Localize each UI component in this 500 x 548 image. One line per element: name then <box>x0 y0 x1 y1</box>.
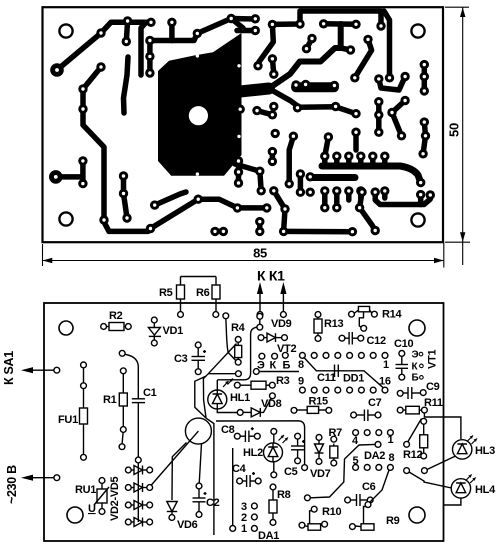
solder pad <box>146 18 155 27</box>
solder pad <box>252 106 261 115</box>
wire from transformer area to DA2 column <box>216 421 305 465</box>
wire junction to HL4 <box>409 472 452 488</box>
copper trace <box>311 174 355 181</box>
solder pad <box>380 152 389 161</box>
solder pad <box>119 171 128 180</box>
solder pad <box>426 190 435 199</box>
copper trace <box>155 192 186 205</box>
solder pad <box>320 203 329 212</box>
solder pad <box>357 187 366 196</box>
copper trace <box>147 41 153 74</box>
svg-text:1: 1 <box>388 434 394 446</box>
IC DD1 outline <box>304 357 384 388</box>
svg-text:VD1: VD1 <box>163 325 184 337</box>
svg-text:К: К <box>270 360 277 372</box>
svg-text:HL4: HL4 <box>475 484 496 496</box>
solder pad <box>257 186 266 195</box>
solder pad <box>167 18 176 27</box>
solder pad <box>236 105 245 114</box>
copper trace <box>269 24 341 89</box>
solder pad <box>387 108 396 117</box>
svg-text:R12: R12 <box>403 449 422 461</box>
svg-text:R4: R4 <box>231 322 246 334</box>
IC DA2 pins <box>353 430 394 471</box>
copper trace <box>236 161 242 183</box>
svg-text:HL2: HL2 <box>243 447 263 459</box>
solder pad <box>96 28 105 37</box>
wire arrow to K1 (right) <box>282 294 284 312</box>
solder pad <box>306 188 315 197</box>
solder pad <box>330 81 339 90</box>
svg-text:C10: C10 <box>394 338 413 350</box>
solder pad <box>374 74 383 83</box>
PCB board outline <box>43 7 444 242</box>
wires transformer to VD6 and C2 <box>172 443 202 501</box>
solder pad <box>268 20 277 29</box>
solder pad <box>306 172 315 181</box>
wire HL3 to junction <box>427 456 456 470</box>
svg-text:R6: R6 <box>196 287 210 299</box>
copper trace <box>307 39 313 49</box>
wire outer loop down to bottom area <box>195 376 214 535</box>
IC DD1 pin rows <box>300 353 388 394</box>
wire HL4 bottom <box>444 498 461 505</box>
mounting hole top-right <box>409 320 425 336</box>
solder pad <box>268 147 277 156</box>
svg-text:Б: Б <box>283 360 291 372</box>
solder pad <box>78 156 87 165</box>
copper trace <box>269 89 356 114</box>
copper trace <box>355 39 372 77</box>
solder pad <box>400 72 409 81</box>
solder pad <box>356 186 365 195</box>
solder pad <box>420 86 429 95</box>
svg-text:VD9: VD9 <box>271 318 292 330</box>
copper trace <box>215 229 223 235</box>
solder pad <box>385 73 394 82</box>
solder pad <box>219 227 228 236</box>
svg-text:VT1: VT1 <box>427 350 439 369</box>
transformer T1 circle <box>151 418 212 486</box>
solder pad <box>251 26 260 35</box>
copper trace <box>341 48 351 50</box>
solder pad <box>332 203 341 212</box>
wire stub to node below R4 <box>208 373 235 375</box>
solder pad <box>280 204 289 213</box>
solder pad <box>420 72 429 81</box>
svg-text:HL1: HL1 <box>230 392 250 404</box>
solder pad <box>194 195 203 204</box>
copper trace <box>124 57 129 113</box>
svg-text:VD8: VD8 <box>261 398 282 410</box>
solder pad <box>380 186 389 195</box>
copper trace <box>370 156 376 164</box>
svg-text:R9: R9 <box>386 515 400 527</box>
svg-text:50: 50 <box>447 123 462 137</box>
solder pad <box>344 152 353 161</box>
VT1 pins <box>419 352 423 356</box>
copper trace <box>169 22 175 40</box>
svg-text:R3: R3 <box>276 375 290 387</box>
svg-text:~230 В: ~230 В <box>5 465 19 504</box>
svg-text:9: 9 <box>298 376 304 388</box>
svg-text:VD6: VD6 <box>177 519 198 531</box>
solder pad <box>376 21 385 30</box>
svg-text:R1: R1 <box>103 394 117 406</box>
svg-text:C8: C8 <box>221 424 235 436</box>
solder pad <box>145 36 154 45</box>
copper trace <box>231 16 254 22</box>
solder pad <box>99 215 108 224</box>
copper trace <box>325 137 329 156</box>
copper trace <box>235 164 261 191</box>
svg-text:C7: C7 <box>368 397 382 409</box>
wire R11 to HL3 <box>408 413 461 442</box>
copper trace <box>322 156 328 164</box>
copper trace <box>272 59 273 74</box>
solder pad <box>78 179 87 188</box>
solder pad <box>293 103 302 112</box>
solder pad <box>269 186 278 195</box>
wire from top pad to HL1 anode <box>217 319 259 380</box>
component side board outline <box>44 303 444 541</box>
wire to DA1 pin 1 <box>232 448 234 526</box>
wire HL1 bottom to VD8 <box>217 411 237 413</box>
copper trace <box>298 174 304 192</box>
svg-text:VD7: VD7 <box>310 468 331 480</box>
copper trace <box>56 174 83 180</box>
copper trace <box>353 132 359 150</box>
solder pad <box>319 19 328 28</box>
solder pad <box>285 179 294 188</box>
solder pad <box>307 34 316 43</box>
svg-text:R8: R8 <box>277 489 291 501</box>
svg-text:RU1: RU1 <box>75 484 96 496</box>
solder pad <box>418 149 427 158</box>
svg-text:DD1: DD1 <box>343 373 364 385</box>
solder pad <box>320 152 329 161</box>
svg-text:8: 8 <box>389 452 395 464</box>
solder pad <box>269 70 278 79</box>
dimension 50 (right) <box>445 7 470 265</box>
svg-text:C4: C4 <box>232 463 247 475</box>
solder pad <box>234 156 243 165</box>
copper trace <box>240 89 269 92</box>
svg-text:R5: R5 <box>159 287 173 299</box>
solder pad <box>374 128 383 137</box>
mounting hole top-left <box>59 321 73 335</box>
solder pad <box>332 186 341 195</box>
copper trace <box>274 191 285 232</box>
solder pad <box>210 227 219 236</box>
wire joining R5 R6 tops <box>181 276 217 278</box>
wire to SA1 with arrow <box>30 369 54 371</box>
copper trace <box>322 191 328 208</box>
solder pad <box>78 84 87 93</box>
solder pad <box>271 129 280 138</box>
copper trace <box>237 28 255 34</box>
solder pad <box>96 62 105 71</box>
svg-text:C1: C1 <box>143 387 157 399</box>
svg-text:К SA1: К SA1 <box>2 351 16 385</box>
wire arrow to K1 (left) <box>259 294 261 312</box>
solder pad <box>279 227 288 236</box>
svg-text:1: 1 <box>241 523 247 535</box>
solder pad <box>420 117 429 126</box>
copper trace <box>126 21 127 42</box>
mounting hole bottom-right <box>411 213 424 226</box>
solder pad <box>255 227 264 236</box>
copper trace <box>379 77 405 91</box>
svg-text:VD2-VD5: VD2-VD5 <box>109 476 121 521</box>
copper trace <box>375 192 430 204</box>
solder pad <box>301 80 310 89</box>
copper trace <box>392 101 405 136</box>
solder pad <box>291 80 300 89</box>
copper trace <box>80 161 86 184</box>
solder pad <box>351 20 360 29</box>
wire DA2 pin 8 to R9 <box>370 470 389 502</box>
solder pad <box>295 19 304 28</box>
copper trace <box>384 11 390 78</box>
copper trace <box>422 65 428 91</box>
copper trace <box>324 21 356 27</box>
solder pad <box>146 224 155 233</box>
solder pad <box>331 102 340 111</box>
solder pad <box>268 157 277 166</box>
solder pad <box>49 170 63 184</box>
wire to mains with arrow <box>30 477 54 479</box>
mounting hole bottom-right <box>409 507 425 523</box>
copper trace <box>360 192 376 230</box>
copper trace <box>270 152 276 162</box>
svg-text:R2: R2 <box>109 310 123 322</box>
copper trace <box>346 156 352 164</box>
copper trace <box>358 191 364 198</box>
copper ground plane polygon <box>158 33 242 176</box>
svg-text:5: 5 <box>353 455 359 467</box>
solder pad <box>346 45 355 54</box>
solder pad <box>123 16 132 25</box>
solder pad <box>374 110 383 119</box>
copper trace <box>124 176 128 218</box>
solder pad <box>262 203 271 212</box>
solder pad <box>344 186 353 195</box>
copper trace <box>257 111 272 115</box>
solder pad <box>368 152 377 161</box>
copper trace <box>358 156 364 164</box>
solder pad <box>251 14 260 23</box>
VT2 pins <box>259 353 265 359</box>
copper trace <box>83 67 267 231</box>
solder pad <box>150 200 159 209</box>
copper trace <box>382 156 388 164</box>
copper trace <box>258 24 273 65</box>
copper trace <box>376 102 382 133</box>
svg-text:C11: C11 <box>317 372 336 384</box>
svg-text:C9: C9 <box>426 381 440 393</box>
svg-text:C5: C5 <box>284 466 298 478</box>
solder pad <box>255 167 264 176</box>
svg-text:HL3: HL3 <box>475 445 495 457</box>
solder pad <box>356 152 365 161</box>
copper trace <box>284 229 353 235</box>
copper trace <box>289 136 293 184</box>
copper trace <box>382 191 388 198</box>
copper trace <box>334 156 340 164</box>
solder pad <box>253 61 262 70</box>
solder pad <box>233 203 242 212</box>
svg-text:FU1: FU1 <box>58 414 78 426</box>
copper trace <box>346 191 352 200</box>
solder pad <box>420 60 429 69</box>
mounting hole bottom-left <box>59 212 72 225</box>
copper trace <box>257 222 263 232</box>
solder pad <box>145 52 154 61</box>
solder pad <box>234 178 243 187</box>
mounting hole top-left <box>59 24 72 37</box>
svg-text:1: 1 <box>383 359 389 371</box>
copper trace <box>418 195 424 205</box>
solder pad <box>350 73 359 82</box>
solder pad <box>355 203 364 212</box>
solder pad <box>371 187 380 196</box>
svg-text:C6: C6 <box>362 481 376 493</box>
solder pad <box>193 29 202 38</box>
solder pad <box>78 104 87 113</box>
wire DA2 to R10 <box>311 444 376 497</box>
solder pad <box>351 109 360 118</box>
wire R1 tail <box>122 432 123 444</box>
copper trace <box>150 19 243 41</box>
copper trace <box>322 166 421 183</box>
solder pad <box>268 110 277 119</box>
copper trace <box>272 11 381 26</box>
solder pad <box>332 152 341 161</box>
solder pad <box>416 178 425 187</box>
solder pad <box>145 68 154 77</box>
svg-text:R11: R11 <box>424 397 443 409</box>
solder pad <box>296 188 305 197</box>
solder pad <box>119 189 128 198</box>
solder pad <box>421 131 430 140</box>
wire from R4 node down around HL1 <box>203 344 236 418</box>
solder pad <box>122 213 131 222</box>
solder pad <box>351 128 360 137</box>
copper trace <box>57 22 151 70</box>
solder pads <box>49 14 435 237</box>
dimension 85 (bottom) <box>43 243 444 268</box>
copper traces <box>56 11 431 232</box>
solder pad <box>371 226 380 235</box>
svg-text:C3: C3 <box>174 353 188 365</box>
solder pad <box>289 132 298 141</box>
solder pad <box>397 131 406 140</box>
solder pad <box>269 102 278 111</box>
solder pad <box>363 35 372 44</box>
svg-text:К К1: К К1 <box>257 268 285 284</box>
solder pad <box>122 37 131 46</box>
solder pad <box>416 190 425 199</box>
solder pad <box>50 63 64 77</box>
mounting hole top-right <box>411 24 424 37</box>
solder pad <box>268 54 277 63</box>
solder pad <box>320 186 329 195</box>
svg-text:R10: R10 <box>322 506 341 518</box>
svg-text:Б: Б <box>412 373 419 384</box>
svg-text:DA1: DA1 <box>258 530 279 542</box>
wire bus to DD1 pin 8 <box>259 371 299 373</box>
solder pad <box>302 44 311 53</box>
solder pad <box>374 97 383 106</box>
mounting hole bottom-left <box>67 507 83 523</box>
copper trace <box>423 122 425 154</box>
solder pad <box>296 169 305 178</box>
copper trace <box>334 191 340 208</box>
svg-text:C12: C12 <box>367 335 386 347</box>
svg-text:DA2: DA2 <box>364 450 385 462</box>
svg-text:85: 85 <box>253 246 267 261</box>
svg-text:Э: Э <box>412 350 419 361</box>
solder pad <box>324 132 333 141</box>
solder pad <box>255 217 264 226</box>
copper trace <box>141 22 146 75</box>
solder pad <box>227 14 236 23</box>
svg-text:R13: R13 <box>324 318 343 330</box>
solder pad <box>400 96 409 105</box>
svg-text:8: 8 <box>298 359 304 371</box>
solder pad <box>234 167 243 176</box>
svg-text:R14: R14 <box>382 309 402 321</box>
copper trace <box>296 82 334 92</box>
svg-text:C2: C2 <box>206 497 220 509</box>
solder pad <box>348 227 357 236</box>
